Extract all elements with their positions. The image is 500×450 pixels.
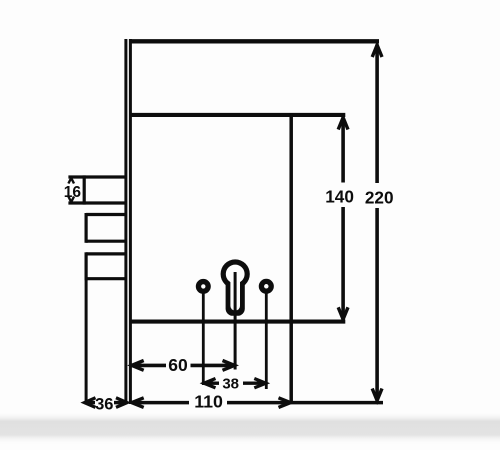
svg-text:38: 38 (222, 376, 239, 393)
faceplate front vertical line (124, 39, 127, 404)
dimension 220 down arrow (372, 389, 382, 401)
svg-text:110: 110 (194, 391, 223, 411)
dimension 60 right arrow (223, 361, 235, 371)
dimension 140 down arrow (338, 307, 348, 319)
cylinder centre extension line (234, 272, 237, 370)
dimension line 38 horizontal (204, 382, 266, 385)
left fixing hole (198, 282, 208, 292)
svg-text:16: 16 (64, 184, 82, 201)
dimension 38 left arrow (204, 379, 216, 388)
dimension 36 right arrow (116, 398, 127, 408)
svg-text:60: 60 (168, 355, 188, 375)
dimension line 220 vertical (375, 45, 379, 401)
right hole extension line (265, 291, 268, 389)
svg-text:36: 36 (95, 396, 113, 414)
latch tab 3 outline (86, 252, 127, 280)
right fixing hole (261, 281, 271, 291)
left hole extension line (202, 291, 205, 385)
dimension 110 left arrow (132, 398, 144, 408)
lock body top edge (129, 39, 379, 43)
latch tab 2 outline (86, 213, 127, 243)
dimension 38 right arrow (254, 379, 265, 388)
dimension 16 down arrow (68, 197, 74, 203)
dimension line 60 horizontal (132, 364, 235, 368)
dimension 220 up arrow (372, 45, 382, 57)
euro cylinder keyhole (221, 259, 250, 315)
svg-text:140: 140 (325, 186, 354, 206)
lock body bottom edge (130, 320, 346, 324)
dimension 36 left arrow (85, 398, 96, 408)
lock body right edge (289, 113, 293, 404)
lock body left edge (129, 39, 132, 404)
dimension line 36 horizontal (85, 401, 128, 405)
dimension 16 up arrow (68, 178, 74, 184)
dimension 110 right arrow (279, 398, 291, 408)
lock case front edge (36mm reference line) (85, 279, 88, 403)
latch tab 1 bottom edge (68, 201, 127, 204)
dimension 140 up arrow (338, 118, 348, 130)
dimension 60 left arrow (132, 361, 144, 371)
latch tab 1 top edge (68, 175, 127, 178)
lock case top line (130, 113, 346, 117)
dimension line 140 vertical (341, 118, 345, 320)
latch tab 1 left edge (83, 175, 86, 204)
dimension line 110 horizontal with 220 reference extension (132, 401, 383, 405)
svg-text:220: 220 (365, 188, 394, 208)
